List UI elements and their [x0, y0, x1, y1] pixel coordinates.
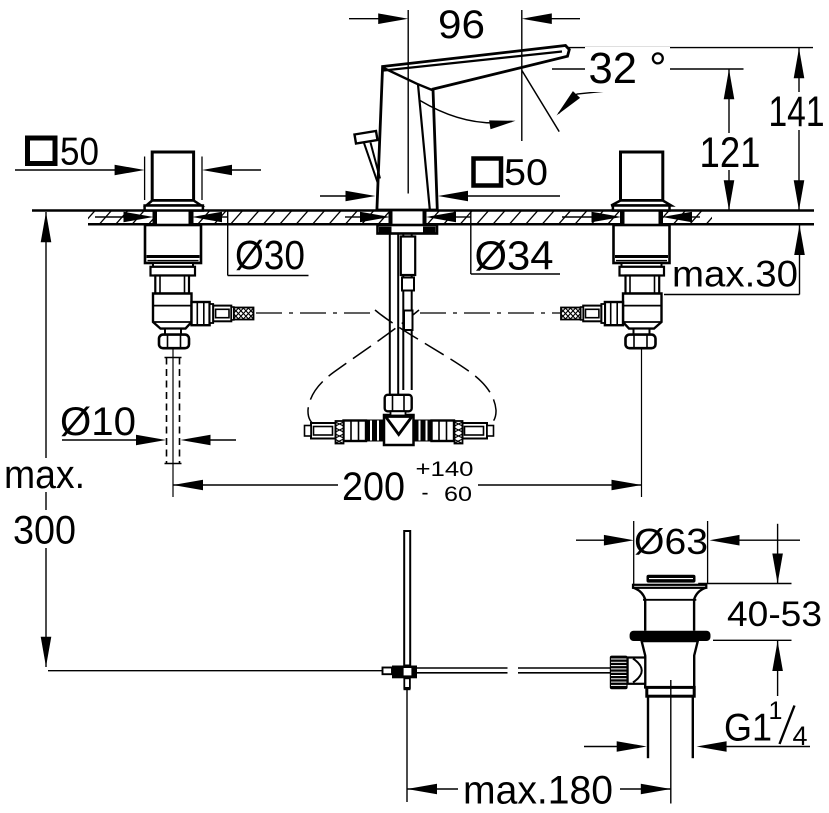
svg-text:-: - — [422, 482, 429, 505]
svg-text:max.: max. — [4, 453, 85, 497]
svg-text:50: 50 — [504, 152, 548, 193]
svg-text:121: 121 — [700, 130, 761, 177]
svg-text:96: 96 — [438, 3, 485, 47]
svg-text:300: 300 — [13, 509, 76, 553]
svg-text:Ø30: Ø30 — [235, 232, 305, 278]
svg-text:141: 141 — [769, 89, 825, 136]
svg-text:Ø63: Ø63 — [634, 521, 708, 562]
svg-text:max.180: max.180 — [463, 769, 613, 813]
svg-text:G1: G1 — [724, 707, 772, 750]
svg-text:max.30: max.30 — [672, 254, 798, 295]
svg-text:Ø34: Ø34 — [475, 233, 554, 279]
svg-text:200: 200 — [342, 465, 405, 509]
svg-text:1: 1 — [769, 697, 783, 725]
svg-text:50: 50 — [60, 131, 99, 174]
svg-text:4: 4 — [792, 721, 807, 751]
svg-text:Ø10: Ø10 — [60, 400, 136, 444]
svg-text:60: 60 — [444, 482, 472, 506]
svg-text:+140: +140 — [416, 458, 474, 481]
svg-text:32 °: 32 ° — [589, 44, 667, 93]
svg-text:40-53: 40-53 — [727, 594, 822, 634]
